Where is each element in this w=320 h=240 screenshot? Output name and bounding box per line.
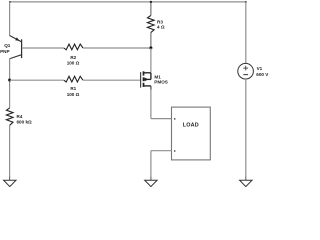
transistor M1 body arrow bbox=[145, 78, 149, 82]
transistor Q1 emitter diagonal bbox=[10, 36, 22, 42]
svg-text:4 Ω: 4 Ω bbox=[157, 25, 165, 30]
svg-text:100 Ω: 100 Ω bbox=[67, 92, 80, 97]
svg-text:Q1: Q1 bbox=[4, 43, 11, 48]
wire right column top bbox=[245, 2, 247, 64]
transistor M1 gate bar bbox=[140, 72, 142, 88]
svg-text:PNP: PNP bbox=[0, 49, 9, 54]
wire left drop to Q1 emitter bbox=[9, 2, 11, 36]
wire R3 bottom lead bbox=[150, 33, 152, 48]
V1 minus bbox=[243, 74, 248, 76]
wire R2 to mid column bbox=[83, 47, 151, 49]
svg-text:R1: R1 bbox=[70, 86, 76, 91]
node top-left corner bbox=[9, 1, 11, 3]
transistor M1 channel segment bottom bbox=[143, 83, 145, 87]
wire junction to R1 bbox=[10, 79, 64, 81]
wire right column bottom bbox=[245, 79, 247, 177]
svg-text:V1: V1 bbox=[257, 66, 263, 71]
node junction R2/R3 bbox=[149, 46, 152, 49]
wire R4 to ground bbox=[9, 125, 11, 176]
resistor R4 bbox=[6, 108, 13, 125]
wire R3 top lead bbox=[150, 2, 152, 16]
transistor M1 body tie to source bbox=[150, 73, 152, 80]
ground right bbox=[240, 180, 252, 186]
resistor R1 bbox=[64, 76, 83, 82]
wire mid column to M1 source bbox=[150, 48, 152, 72]
pin dot LOAD bottom bbox=[174, 150, 175, 152]
transistor Q1 base bar bbox=[21, 39, 23, 58]
pin dot LOAD top bbox=[174, 118, 175, 120]
wire mid column to ground bbox=[150, 151, 152, 177]
transistor M1 channel segment top bbox=[143, 71, 145, 75]
wire R1 to M1 gate bbox=[83, 79, 141, 81]
V1 plus bbox=[243, 67, 248, 69]
wire top rail bbox=[10, 1, 246, 3]
transistor Q1 emitter arrow bbox=[15, 37, 19, 41]
transistor M1 channel segment middle bbox=[143, 77, 145, 81]
svg-text:R2: R2 bbox=[70, 55, 76, 60]
svg-text:R4: R4 bbox=[17, 114, 23, 119]
resistor R2 bbox=[64, 44, 83, 50]
transistor M1 drain stub bbox=[144, 85, 151, 87]
wire Q1 base to R2 bbox=[22, 47, 64, 49]
wire drain to LOAD top pin bbox=[151, 118, 172, 120]
LOAD box bbox=[172, 107, 211, 160]
ground mid bbox=[145, 180, 157, 186]
node top-right corner bbox=[245, 1, 247, 3]
transistor M1 body stub bbox=[144, 78, 151, 80]
ground left bbox=[4, 180, 16, 186]
transistor Q1 collector diagonal bbox=[10, 55, 22, 59]
svg-text:600 kΩ: 600 kΩ bbox=[17, 120, 32, 125]
voltage source V1 bbox=[238, 63, 254, 79]
node junction collector/R1 bbox=[8, 79, 11, 82]
wire left rail (collector to R4) bbox=[9, 58, 11, 108]
wire M1 drain pin bbox=[150, 86, 152, 90]
svg-text:600 V: 600 V bbox=[256, 72, 269, 77]
wire LOAD bottom pin to mid column bbox=[151, 150, 172, 152]
svg-text:100 Ω: 100 Ω bbox=[67, 61, 80, 66]
transistor M1 source stub bbox=[144, 72, 151, 74]
wire drain down bbox=[150, 90, 152, 119]
svg-text:LOAD: LOAD bbox=[183, 123, 199, 129]
resistor R3 bbox=[147, 16, 154, 33]
node junction top of R3 branch bbox=[150, 1, 152, 3]
svg-text:PMOS: PMOS bbox=[154, 80, 168, 85]
